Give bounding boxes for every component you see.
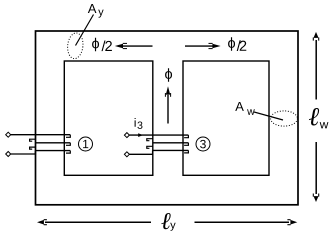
winding W1 terminal (top) (6, 132, 11, 137)
dimension arrow lw (vertical, double-headed) (313, 32, 318, 202)
winding W1 right tab 1 (66, 135, 70, 138)
flux arrow phi/2 right (pointing right) (185, 43, 221, 48)
circled label 1 (79, 137, 93, 151)
winding W1 terminal (bottom) (6, 152, 11, 157)
leader line for Aw (254, 112, 283, 120)
label lw (309, 108, 328, 128)
winding W3 left tab 1 (147, 139, 153, 141)
label ly (161, 213, 175, 231)
label phi (centre leg) (165, 68, 172, 82)
winding W3 wire turn 2 (153, 142, 189, 144)
winding W3 right tab 3 (184, 150, 188, 153)
winding W1 bottom lead with jog (11, 151, 36, 154)
winding W1 wire turn 3 (35, 150, 70, 152)
label phi/2 (left) (92, 38, 112, 52)
winding W3 right tab 2 (184, 143, 188, 146)
label Ay (88, 4, 104, 18)
flux arrow phi/2 left (pointing left) (115, 43, 153, 48)
winding W3 terminal (bottom) (124, 152, 129, 157)
winding W3 left tab 2 (147, 146, 153, 148)
leader line for Ay (76, 15, 94, 46)
winding W3 bottom lead with jog (129, 150, 152, 154)
winding W3 terminal (top) (124, 133, 129, 138)
winding W1 right tab 2 (66, 143, 70, 146)
winding W1 right tab 3 (66, 151, 70, 154)
winding W3 top lead / wire turn 1 (129, 134, 188, 136)
dotted ellipse marking leg cross-section Aw (271, 111, 298, 126)
current direction arrow i3 (138, 133, 143, 137)
circled label 3 (196, 137, 210, 151)
dotted ellipse marking yoke cross-section Ay (66, 32, 84, 59)
core window 3 (right) (183, 61, 269, 175)
label phi/2 (right) (228, 37, 246, 51)
dimension arrow ly (horizontal, double-headed) (37, 220, 297, 225)
winding W1 left tab 2 (30, 147, 36, 149)
label i3 (135, 118, 143, 129)
winding W3 right tab 1 (184, 135, 188, 138)
winding W1 top lead / wire turn 1 (11, 134, 71, 136)
winding W1 wire turn 2 (35, 142, 70, 144)
winding W1 left tab 1 (30, 139, 36, 141)
winding W3 wire turn 3 (153, 149, 189, 151)
core window 1 (left) (64, 61, 153, 175)
flux arrow phi (centre leg, pointing up) (165, 86, 170, 123)
core outer outline (36, 31, 299, 205)
label Aw (235, 102, 255, 115)
